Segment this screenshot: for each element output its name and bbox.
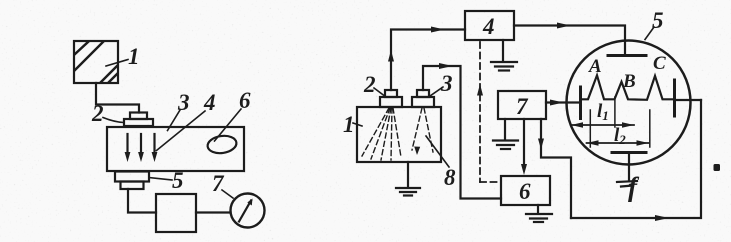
label 5 leader [645,27,654,40]
svg-text:2: 2 [363,72,376,97]
bottom return wire [571,100,701,218]
top electrode bar [608,54,646,57]
label 8 leader [426,136,449,167]
label 2 leader [374,88,386,97]
dashed sync wire box 4 to box 6 [480,42,501,182]
right diagram: specimen block 1 [357,107,441,162]
transducer 2 [380,97,402,107]
dimension l2 [587,140,649,145]
flow arrow right into box 4 [431,27,445,33]
flow arrow right [439,63,453,69]
sample ellipse 6 [206,134,237,155]
label 2 leader [103,118,124,123]
svg-text:5: 5 [652,8,664,33]
ink speck [714,164,721,171]
wire transducer 2 to box 4 [391,30,465,91]
svg-text:8: 8 [444,165,456,190]
box 4 generator [465,11,514,40]
svg-text:4: 4 [482,14,495,39]
svg-text:A: A [588,56,602,77]
wire box 7 to deflection plate [546,101,580,103]
svg-text:C: C [653,53,666,74]
svg-text:6: 6 [519,179,531,204]
svg-text:4: 4 [203,90,216,115]
svg-text:7: 7 [516,94,529,119]
transducer 3 [412,97,434,107]
label 3 leader [168,110,181,131]
bottom electrode bar [612,151,646,154]
beam arrow a2 [138,134,144,162]
right plate lead [675,99,702,101]
dimension extension lines [590,97,650,147]
svg-text:3: 3 [440,71,453,96]
svg-text:1: 1 [128,44,140,69]
gauge 7 [231,194,265,228]
label 6 leader [215,109,242,141]
box 6 [501,176,550,205]
ground under box 6 [526,205,552,222]
flow arrow right [557,23,571,29]
box 7 [498,91,546,119]
bottom electrode stem [628,154,630,181]
wire box 4 to screen electrode [514,26,625,56]
dimension l1 [571,122,634,127]
wire box 7 to box 6 [523,119,525,168]
label 7 leader [222,190,233,198]
label 5 leader [149,178,172,181]
right plate [673,80,676,116]
outlet fitting 5 [115,172,149,182]
wire source to window 2 [96,83,139,113]
CRT screen circle 5 [567,41,691,165]
chamber box 3 [107,127,244,171]
label 1 leader [353,123,362,126]
svg-text:6: 6 [239,88,251,113]
arrow into box 6 [521,164,527,175]
hatch of source block 1 [75,42,117,82]
beam arrow a1 [125,134,131,162]
flow arrow right [550,100,564,106]
wire fitting 5 to pump [128,189,156,213]
ground under box 4 [491,40,517,71]
trace with pulses A B C [581,75,675,100]
flow arrow right [655,215,669,221]
svg-text:5: 5 [172,168,184,193]
svg-text:2: 2 [91,101,104,126]
ground f [617,181,637,187]
left diagram: radiation source block 1 [74,41,118,83]
svg-text:B: B [622,71,636,92]
label 4 leader [157,111,206,151]
label 1 leader [106,60,128,67]
label 3 leader [430,87,443,96]
window fitting 2 [130,113,147,120]
ultrasonic rays [362,108,433,160]
arrow down [538,139,544,150]
svg-text:7: 7 [212,171,225,196]
svg-text:1: 1 [343,112,355,137]
reflected ray arrowhead [414,147,420,156]
flow arrow up [388,50,394,62]
pump box [156,194,196,232]
dashed wire arrow up [477,84,483,96]
ground under specimen [396,162,420,196]
beam arrow a3 [152,134,158,162]
left plate [579,87,582,119]
svg-text:3: 3 [177,90,190,115]
ground under box 7 [493,119,518,149]
wire pump to gauge 7 [196,211,230,213]
wire box 7 to sweep loop [541,119,571,218]
wire transducer 3 to box 6 [423,66,501,199]
